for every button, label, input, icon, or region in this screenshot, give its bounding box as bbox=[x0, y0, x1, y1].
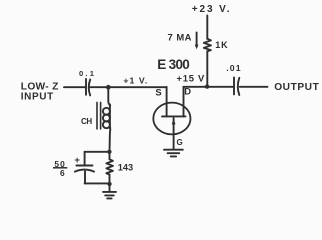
svg-text:7 MA: 7 MA bbox=[168, 31, 192, 42]
svg-text:INPUT: INPUT bbox=[21, 92, 54, 103]
svg-text:D: D bbox=[184, 86, 191, 97]
svg-text:1K: 1K bbox=[215, 40, 228, 50]
svg-text:S: S bbox=[155, 86, 161, 97]
svg-text:+: + bbox=[74, 155, 80, 166]
svg-text:+23 V.: +23 V. bbox=[192, 4, 232, 15]
svg-text:+15 V: +15 V bbox=[177, 73, 206, 84]
svg-text:OUTPUT: OUTPUT bbox=[274, 82, 319, 93]
svg-text:E 300: E 300 bbox=[157, 57, 189, 72]
svg-text:+1 V.: +1 V. bbox=[123, 75, 148, 85]
svg-text:6: 6 bbox=[60, 168, 65, 178]
svg-text:G: G bbox=[176, 138, 182, 147]
svg-text:.01: .01 bbox=[226, 63, 241, 73]
svg-text:143: 143 bbox=[118, 162, 133, 172]
svg-text:CH: CH bbox=[81, 117, 92, 126]
svg-text:0.1: 0.1 bbox=[79, 69, 96, 78]
